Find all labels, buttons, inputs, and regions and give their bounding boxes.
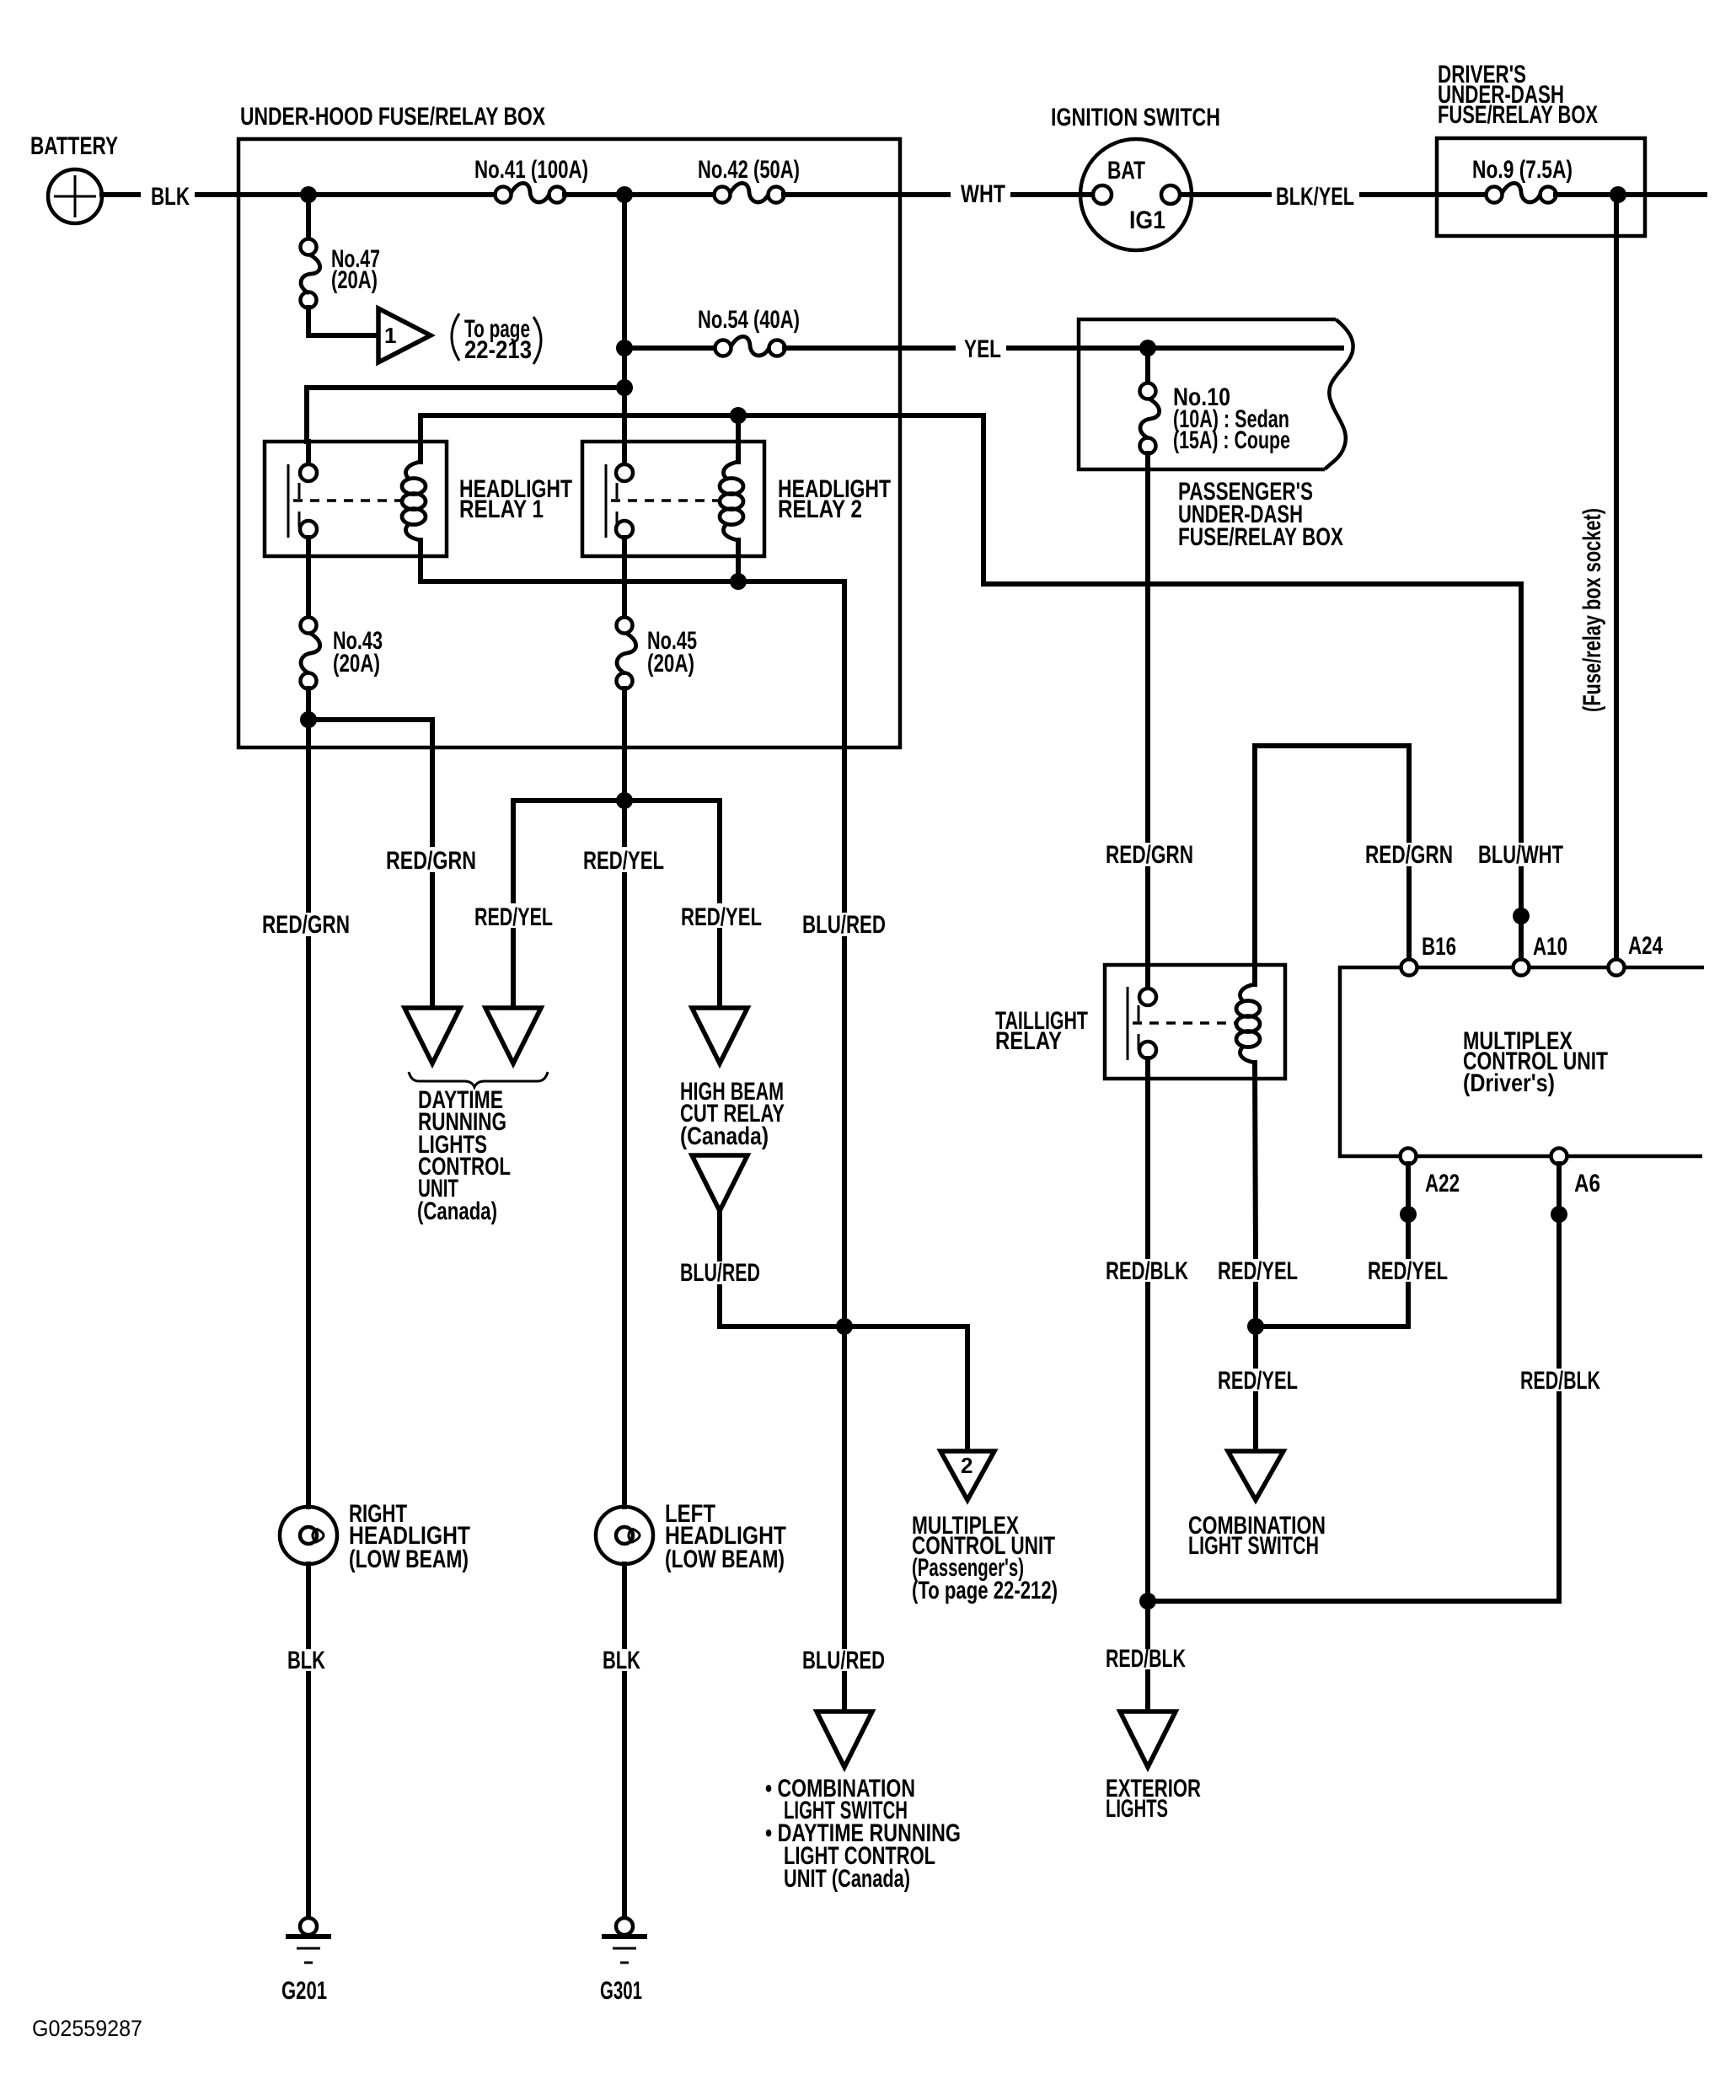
svg-text:BLK/YEL: BLK/YEL: [1276, 183, 1354, 211]
arrow 1 to page 22-213: [378, 308, 431, 362]
brace under DRL arrows: [409, 1072, 548, 1087]
fuse No.45 (20A) vertical: [617, 556, 636, 689]
relay K3 coil: [1236, 984, 1260, 1063]
relay K1 dashed link: [293, 499, 405, 502]
wire left headlight to BLK label: [622, 1564, 627, 1647]
svg-text:BATTERY: BATTERY: [30, 132, 118, 160]
node junction RED/YEL merge: [1247, 1318, 1264, 1335]
node splice on A6 wire: [1551, 1206, 1567, 1223]
svg-text:A24: A24: [1628, 932, 1663, 960]
wire x741 label to headlight: [622, 875, 627, 1507]
relay K1 pin top: [300, 442, 317, 481]
wire BLK label to ground G301: [622, 1674, 627, 1919]
fuse No.9 (7.5A): [1487, 183, 1557, 202]
pin A22: [1401, 1149, 1417, 1165]
svg-text:UNDER-HOOD FUSE/RELAY BOX: UNDER-HOOD FUSE/RELAY BOX: [240, 103, 545, 131]
svg-text:(20A): (20A): [647, 650, 694, 678]
label COMBINATION LIGHT SWITCH: [1188, 1512, 1326, 1560]
wire branch to DRL arrow x513: [308, 720, 432, 844]
wire relay feed vertical x741: [622, 195, 627, 473]
svg-text:BLK: BLK: [287, 1647, 325, 1674]
label DRIVER'S UNDER-DASH FUSE/RELAY BOX: [1438, 61, 1598, 129]
relay K2 headlight relay 2 box: [582, 442, 764, 556]
fuse No.10 vertical: [1140, 348, 1160, 454]
wire fuse43 down to junction y854: [306, 688, 311, 720]
wire A22 down: [1406, 1164, 1411, 1256]
label MULTIPLEX CONTROL UNIT (Driver's): [1463, 1027, 1608, 1097]
wire BLU/RED x1002 down to junction: [842, 939, 847, 1647]
relay K3 pin top: [1139, 965, 1156, 1005]
svg-text:1: 1: [384, 323, 396, 348]
arrow 2 multiplex control unit passenger: [940, 1451, 994, 1500]
svg-text:RED/GRN: RED/GRN: [1365, 841, 1453, 869]
svg-text:IG1: IG1: [1129, 206, 1165, 234]
wire ignition to BLK/YEL label: [1181, 192, 1269, 197]
pin A6: [1551, 1149, 1567, 1165]
svg-text:B16: B16: [1422, 933, 1456, 961]
svg-text:A6: A6: [1574, 1170, 1600, 1197]
svg-text:BLU/RED: BLU/RED: [802, 911, 886, 939]
svg-text:(LOW BEAM): (LOW BEAM): [665, 1546, 785, 1573]
svg-text:G301: G301: [600, 1977, 642, 2005]
label RIGHT HEADLIGHT (LOW BEAM): [349, 1500, 470, 1573]
fuse No.54 (40A): [715, 336, 785, 356]
svg-text:RED/BLK: RED/BLK: [1520, 1367, 1600, 1395]
node splice on A22 wire: [1400, 1206, 1417, 1223]
wire A22 branch to junction x1490: [1256, 1284, 1408, 1326]
wire fuse54 to YEL label: [785, 346, 953, 351]
relay K3 pin bottom: [1139, 1042, 1156, 1079]
wire DRL arrow feed lower x513: [430, 875, 435, 1008]
wire right headlight to BLK label: [306, 1564, 311, 1647]
svg-text:(To page 22-212): (To page 22-212): [912, 1577, 1058, 1604]
wire BLK label to fuse No.41: [197, 192, 496, 197]
svg-text:(15A) : Coupe: (15A) : Coupe: [1173, 426, 1290, 454]
node splice on BLU/WHT: [1513, 908, 1530, 924]
fuse No.41 (100A): [496, 183, 565, 202]
svg-text:RELAY: RELAY: [995, 1027, 1062, 1055]
pin A10: [1514, 960, 1530, 976]
node junction relay1 feed branch: [616, 379, 633, 396]
svg-text:(Driver's): (Driver's): [1463, 1069, 1555, 1097]
svg-text:RED/YEL: RED/YEL: [1368, 1257, 1448, 1285]
svg-text:BLU/WHT: BLU/WHT: [1478, 841, 1563, 869]
svg-text:FUSE/RELAY BOX: FUSE/RELAY BOX: [1438, 101, 1598, 129]
svg-text:No.9 (7.5A): No.9 (7.5A): [1472, 156, 1573, 184]
wire RED/YEL down to left headlight upper: [622, 801, 627, 844]
svg-text:UNIT (Canada): UNIT (Canada): [784, 1865, 910, 1893]
passenger's under-dash fuse/relay box outline torn: [1079, 319, 1336, 469]
label (To page 22-213): [452, 313, 541, 364]
node junction battery feed / No.47 branch: [300, 186, 317, 203]
passenger box torn edge: [1325, 319, 1353, 469]
svg-text:(LOW BEAM): (LOW BEAM): [349, 1546, 469, 1573]
relay K2 coil: [720, 462, 743, 540]
wire relay K2 coil bottom stub: [736, 540, 741, 581]
fuse No.47 (20A) vertical: [301, 195, 320, 308]
wire BLU/RED label to corner and across to multiplex 2: [720, 1287, 967, 1451]
wire RED/YEL to combination light switch arrow: [1253, 1394, 1258, 1451]
wire RED/GRN label to taillight pin: [1145, 869, 1150, 988]
svg-text:RED/BLK: RED/BLK: [1106, 1645, 1186, 1673]
ground G201: [288, 1918, 329, 1963]
fuse No.43 (20A) vertical: [301, 556, 320, 689]
wire BLU/RED label to arrow: [842, 1674, 847, 1712]
arrow output combination light switch / DRL unit: [817, 1712, 872, 1767]
pin B16: [1401, 960, 1417, 976]
svg-text:WHT: WHT: [961, 180, 1005, 208]
svg-text:No.41 (100A): No.41 (100A): [474, 156, 588, 184]
svg-text:(Fuse/relay box socket): (Fuse/relay box socket): [1578, 508, 1606, 712]
wire BLK/YEL label to fuse No.9: [1362, 192, 1487, 197]
svg-text:RELAY 1: RELAY 1: [459, 496, 544, 523]
svg-text:YEL: YEL: [964, 335, 1001, 363]
svg-text:RED/GRN: RED/GRN: [262, 911, 350, 939]
wire coil top bus y493 to A10 run: [421, 415, 1521, 840]
svg-text:BLU/RED: BLU/RED: [802, 1647, 885, 1674]
wire fuse9 to right end: [1556, 192, 1705, 197]
svg-text:A22: A22: [1425, 1170, 1460, 1197]
wire fuse42 to WHT label: [784, 192, 948, 197]
label EXTERIOR LIGHTS: [1106, 1775, 1201, 1823]
svg-text:RELAY 2: RELAY 2: [778, 496, 862, 523]
wire RED/GRN fuse10 to taillight relay: [1145, 453, 1150, 840]
svg-text:RED/YEL: RED/YEL: [583, 847, 664, 875]
node junction YEL branch: [616, 340, 633, 356]
wire BLK label to ground G201: [306, 1674, 311, 1919]
node junction BLU/RED cross: [836, 1318, 853, 1335]
relay K1 pin bottom: [300, 521, 317, 556]
svg-text:RED/BLK: RED/BLK: [1106, 1257, 1188, 1285]
wire taillight coil top up and over to B16: [1255, 746, 1409, 984]
wire BLU/WHT label to pin A10: [1519, 869, 1524, 960]
wire A6 down: [1557, 1164, 1562, 1366]
arrow output DRL 2 x609: [485, 1008, 541, 1063]
svg-text:FUSE/RELAY BOX: FUSE/RELAY BOX: [1178, 523, 1343, 551]
arrow output high beam cut relay x854: [692, 1008, 747, 1063]
svg-text:BLK: BLK: [603, 1647, 640, 1674]
relay K2 dashed link: [611, 499, 722, 502]
svg-text:BLK: BLK: [151, 183, 190, 211]
fuse No.42 (50A): [715, 183, 785, 202]
relay K1 headlight relay 1 box: [265, 442, 447, 556]
svg-text:(Canada): (Canada): [680, 1122, 769, 1150]
relay K3 armature switch: [1128, 987, 1139, 1060]
svg-text:IGNITION SWITCH: IGNITION SWITCH: [1051, 104, 1220, 131]
arrow output exterior lights: [1120, 1712, 1176, 1767]
wire relay K2 coil top stub: [736, 415, 741, 462]
wire RED/BLK label to junction y1900: [1145, 1284, 1150, 1647]
relay K2 pin top: [616, 442, 633, 481]
label HIGH BEAM CUT RELAY (Canada): [680, 1078, 785, 1150]
wire RED/GRN down to right headlight upper: [306, 720, 311, 910]
wire fuse47 to arrow 1: [308, 308, 376, 335]
svg-text:RED/YEL: RED/YEL: [681, 903, 762, 931]
label TAILLIGHT RELAY: [995, 1007, 1088, 1055]
wire x609 label to arrow: [511, 930, 516, 1008]
wire A6 branch to junction y1900: [1148, 1394, 1559, 1601]
battery BAT1: [48, 169, 102, 223]
node junction fuse No.10 tap: [1139, 340, 1156, 356]
wire RED/YEL label to junction: [1253, 1284, 1258, 1366]
wire YEL line fuse54: [624, 346, 715, 351]
svg-text:22-213: 22-213: [464, 336, 532, 364]
svg-text:G02559287: G02559287: [32, 2016, 142, 2041]
relay K2 pin bottom: [616, 521, 633, 556]
lamp left headlight low beam: [596, 1507, 653, 1564]
node junction RED/YEL branches: [616, 792, 633, 809]
wire taillight pin bottom down RED/BLK: [1145, 1079, 1150, 1256]
label bullet list combination light switch daytime running light control unit: [765, 1775, 961, 1893]
label MULTIPLEX CONTROL UNIT (Passenger's) (To page 22-212): [912, 1512, 1058, 1604]
wire fuse45 down to junction y950: [622, 688, 627, 801]
relay K2 armature switch: [606, 464, 617, 538]
svg-text:A10: A10: [1533, 933, 1567, 961]
wire fuse41 to fuse42: [565, 192, 715, 197]
node junction coil bottom bus at relay2: [730, 573, 747, 590]
svg-text:(20A): (20A): [333, 650, 380, 678]
node junction fuse box socket branch: [1610, 186, 1626, 203]
label LEFT HEADLIGHT (LOW BEAM): [665, 1500, 786, 1573]
arrow output DRL 1 x513: [405, 1008, 460, 1063]
svg-text:RED/YEL: RED/YEL: [474, 903, 553, 931]
wire BLU/RED from arrow down: [717, 1211, 722, 1259]
arrow output combination light switch: [1228, 1451, 1283, 1500]
svg-text:LIGHT SWITCH: LIGHT SWITCH: [1188, 1532, 1319, 1560]
ground G301: [604, 1918, 645, 1963]
wire WHT label to ignition switch: [1013, 192, 1092, 197]
svg-text:RED/YEL: RED/YEL: [1218, 1257, 1298, 1285]
relay K1 armature switch: [288, 464, 299, 538]
driver's under-dash fuse/relay box outline: [1437, 138, 1645, 236]
label DAYTIME RUNNING LIGHTS CONTROL UNIT (Canada): [417, 1086, 511, 1225]
wire fuse/relay box socket vertical to A24: [1614, 195, 1619, 960]
wire x366 label to headlight: [306, 939, 311, 1507]
ignition switch SW1: [1080, 139, 1192, 250]
svg-text:BLU/RED: BLU/RED: [680, 1259, 760, 1287]
svg-text:(Canada): (Canada): [417, 1197, 497, 1225]
wire RED/GRN label to pin B16: [1406, 869, 1412, 960]
wire YEL label into passenger box: [1009, 346, 1342, 351]
multiplex control unit driver's box partial outline: [1340, 967, 1704, 1156]
node junction RED/BLK merge: [1139, 1593, 1156, 1610]
wire branch horizontal y950: [513, 801, 720, 901]
svg-text:RED/GRN: RED/GRN: [386, 847, 476, 875]
lamp right headlight low beam: [280, 1507, 337, 1564]
svg-text:No.42 (50A): No.42 (50A): [698, 156, 800, 184]
svg-text:(20A): (20A): [331, 266, 378, 294]
wire taillight coil bottom down: [1255, 1063, 1256, 1256]
taillight relay K3 box: [1105, 965, 1285, 1079]
node junction RED/GRN branch: [300, 711, 317, 728]
wire RED/BLK label to exterior lights arrow: [1145, 1672, 1150, 1712]
svg-text:RED/YEL: RED/YEL: [1218, 1367, 1298, 1395]
wire coil bottom bus y690 BLU/RED run: [421, 540, 844, 910]
arrow input from high beam cut relay: [692, 1155, 747, 1211]
svg-text:G201: G201: [281, 1977, 327, 2005]
wire relay1 feed horizontal y460: [307, 388, 624, 442]
wire x854 label to arrow: [717, 930, 722, 1008]
svg-text:LIGHTS: LIGHTS: [1106, 1795, 1168, 1823]
relay K3 dashed link: [1133, 1021, 1238, 1025]
node junction coil top bus at relay2: [730, 407, 747, 424]
svg-text:RED/GRN: RED/GRN: [1106, 841, 1193, 869]
label PASSENGER'S UNDER-DASH FUSE/RELAY BOX: [1178, 478, 1343, 551]
node junction to relay feed vertical: [616, 186, 633, 203]
svg-text:No.54 (40A): No.54 (40A): [698, 306, 800, 334]
under-hood fuse/relay box outline: [238, 139, 900, 747]
pin A24: [1609, 960, 1625, 976]
label No.10 (10A):Sedan (15A):Coupe: [1173, 383, 1290, 454]
svg-text:2: 2: [961, 1453, 972, 1478]
relay K1 coil: [402, 462, 426, 540]
wire battery to BLK label: [102, 192, 138, 197]
svg-text:BAT: BAT: [1107, 157, 1145, 185]
